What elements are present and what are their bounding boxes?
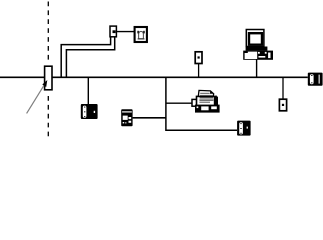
wire: computer drop to bus	[256, 60, 258, 77]
printer PR1	[192, 90, 220, 112]
wire: plug P1 to wall jack J1	[116, 31, 134, 33]
wire: main ethernet bus	[0, 76, 308, 78]
storage unit D2 (end of branch)	[237, 121, 251, 136]
wire: dashed wall line (top)	[47, 2, 49, 64]
storage unit D1	[81, 104, 98, 119]
wire: bus to tap T2	[282, 78, 284, 99]
wire: dashed wall line (bottom)	[47, 96, 49, 140]
wire: tap T1 to bus	[198, 64, 200, 77]
wire: bus drop to storage unit D1	[87, 78, 89, 104]
leader arrow to wall plate	[27, 80, 48, 113]
connector plug P1	[110, 26, 116, 37]
wire: twisted-pair cable inner run	[66, 38, 114, 78]
wall plate W1 on bus	[45, 66, 52, 90]
wire: branch drop from bus	[166, 78, 237, 130]
wall jack J1	[135, 27, 147, 42]
wire: branch to printer	[167, 102, 193, 104]
wire: modem M1 to branch node	[133, 117, 167, 119]
wire: twisted-pair cable outer run	[61, 38, 110, 78]
network tap T1 (above bus)	[195, 52, 202, 64]
computer PC1 (monitor + desktop case)	[243, 30, 273, 60]
storage unit D3 (right end of bus)	[308, 73, 323, 86]
modem M1	[121, 109, 132, 126]
network tap T2 (below bus)	[279, 99, 286, 111]
